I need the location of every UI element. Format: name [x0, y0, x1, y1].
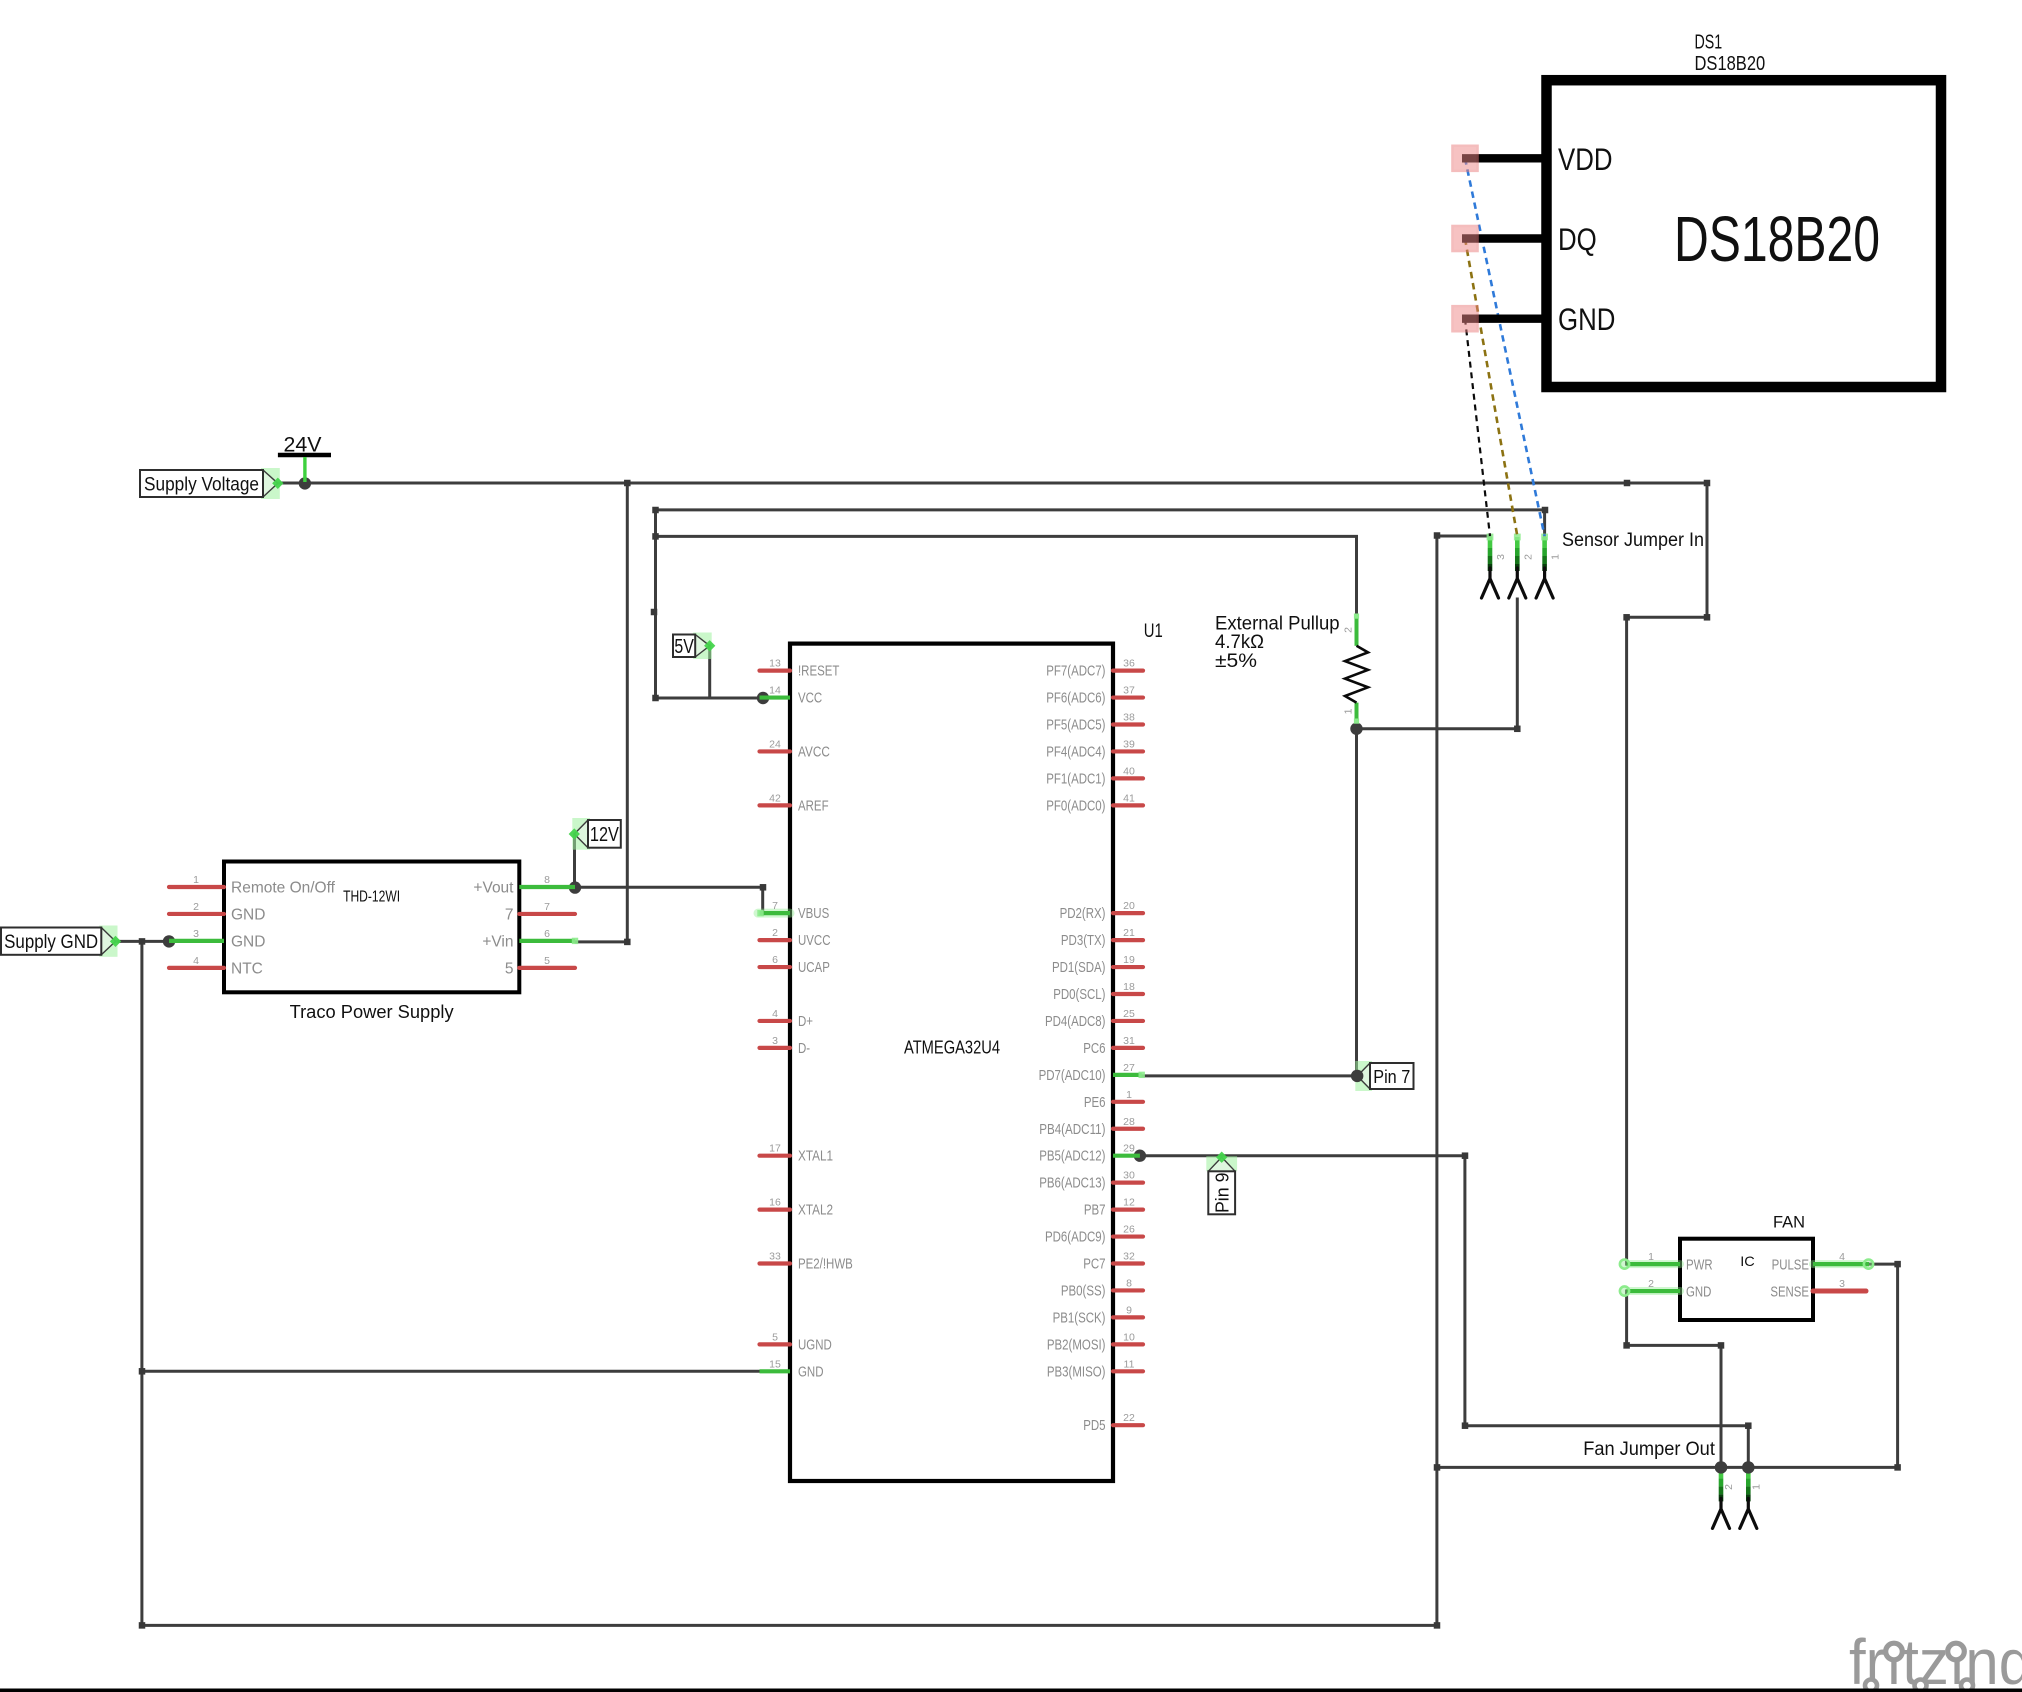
svg-text:PD3(TX): PD3(TX): [1061, 933, 1106, 949]
svg-text:Supply GND: Supply GND: [4, 931, 98, 953]
U1 pin 12 PB7: [1084, 1197, 1143, 1219]
wire pullup bottom down to Pin 7 node: [1355, 729, 1358, 1076]
svg-text:VBUS: VBUS: [798, 906, 829, 922]
svg-text:3: 3: [1495, 554, 1507, 560]
svg-text:26: 26: [1123, 1224, 1135, 1236]
wire GND bus left down: [142, 941, 1437, 1625]
svg-text:PE2/!HWB: PE2/!HWB: [798, 1257, 853, 1273]
wire joint: [1745, 1422, 1752, 1429]
connector J2 pin 2: [1713, 1467, 1736, 1528]
svg-text:PC7: PC7: [1083, 1257, 1105, 1273]
svg-text:2: 2: [1522, 554, 1534, 560]
U1 pin 30 PB6(ADC13): [1039, 1170, 1143, 1192]
node Supply GND junction: [163, 935, 175, 947]
wire FAN GND to fan jumper pin2: [1627, 1291, 1721, 1467]
wire GND bus to PULSE: [1437, 1264, 1898, 1467]
label Fan Jumper Out: [1583, 1439, 1715, 1460]
svg-text:1: 1: [1648, 1251, 1654, 1263]
U1 pin 4 D+: [760, 1008, 813, 1030]
power supply pin 8 +Vout: [473, 874, 575, 897]
wire joint: [652, 507, 659, 514]
svg-text:+Vin: +Vin: [482, 933, 513, 950]
U1 pin 9 PB1(SCK): [1053, 1304, 1143, 1326]
fan pin 3 SENSE: [1770, 1278, 1866, 1301]
wire joint: [624, 480, 631, 487]
wire 5V flag stub: [708, 646, 711, 698]
svg-text:42: 42: [769, 792, 781, 804]
U1 pin 22 PD5: [1083, 1412, 1143, 1434]
U1 pin 17 XTAL1: [760, 1143, 834, 1165]
svg-text:30: 30: [1123, 1170, 1135, 1182]
label ATMEGA32U4: [904, 1037, 1000, 1058]
svg-text:7: 7: [505, 906, 514, 923]
U1 pin 29 PB5(ADC12): [1039, 1143, 1140, 1165]
U1 pin 1 PE6: [1084, 1089, 1143, 1111]
svg-text:Fan Jumper Out: Fan Jumper Out: [1583, 1439, 1715, 1460]
svg-text:PWR: PWR: [1686, 1257, 1713, 1274]
svg-text:2: 2: [193, 901, 199, 913]
svg-text:ATMEGA32U4: ATMEGA32U4: [904, 1037, 1000, 1058]
U1 pin 31 PC6: [1083, 1035, 1143, 1057]
svg-text:12V: 12V: [590, 824, 620, 846]
svg-text:3: 3: [193, 928, 199, 940]
node fan jumper pin1 junction: [1742, 1461, 1754, 1473]
svg-text:GND: GND: [1558, 301, 1615, 337]
svg-text:Remote On/Off: Remote On/Off: [231, 880, 336, 897]
U1 pin 14 VCC: [760, 685, 823, 707]
svg-text:DS18B20: DS18B20: [1695, 53, 1766, 75]
wire joint: [1894, 1464, 1901, 1471]
wire PB5 to fan jumper pin1: [1140, 1156, 1748, 1468]
svg-text:PD1(SDA): PD1(SDA): [1052, 960, 1106, 976]
U1 pin 25 PD4(ADC8): [1045, 1008, 1143, 1030]
fan pin 2 GND: [1620, 1278, 1711, 1301]
svg-text:5: 5: [544, 955, 550, 967]
wire joint: [1894, 1261, 1901, 1268]
wire joint: [1623, 614, 1630, 621]
svg-text:U1: U1: [1144, 621, 1163, 642]
svg-text:AREF: AREF: [798, 798, 829, 814]
node fan jumper pin2 junction top: [1715, 1461, 1727, 1473]
wire joint: [652, 695, 659, 702]
svg-text:18: 18: [1123, 981, 1135, 993]
svg-text:7: 7: [544, 901, 550, 913]
svg-text:4: 4: [1839, 1251, 1845, 1263]
wire joint: [1704, 614, 1711, 621]
svg-text:THD-12WI: THD-12WI: [343, 889, 400, 906]
wire joint: [1462, 1422, 1469, 1429]
svg-text:PB0(SS): PB0(SS): [1061, 1283, 1106, 1299]
label IC: [1740, 1253, 1755, 1269]
power symbol 24V: [278, 434, 331, 483]
U1 pin 26 PD6(ADC9): [1045, 1224, 1143, 1246]
U1 pin 33 PE2/!HWB: [760, 1251, 853, 1273]
node fan jumper pin2 junction: [1715, 1461, 1727, 1473]
svg-text:D+: D+: [798, 1014, 813, 1030]
U1 pin 6 UCAP: [760, 954, 831, 976]
U1 pin 38 PF5(ADC5): [1046, 712, 1143, 734]
connector J1 pin 1: [1536, 534, 1562, 598]
svg-text:PB5(ADC12): PB5(ADC12): [1039, 1149, 1105, 1165]
svg-text:PC6: PC6: [1083, 1041, 1105, 1057]
svg-text:32: 32: [1123, 1251, 1135, 1263]
wire GND bus right vertical: [1435, 535, 1438, 1625]
svg-text:VDD: VDD: [1558, 141, 1613, 177]
svg-text:VCC: VCC: [798, 691, 823, 707]
svg-text:PD4(ADC8): PD4(ADC8): [1045, 1014, 1106, 1030]
power supply pin 5 5: [505, 955, 575, 978]
wire 24V rail right drop: [1627, 483, 1707, 1264]
svg-text:DS18B20: DS18B20: [1674, 203, 1880, 275]
svg-text:3: 3: [1839, 1278, 1845, 1290]
svg-text:PULSE: PULSE: [1772, 1257, 1809, 1274]
wire PD7 to Pin 7 node: [1142, 1074, 1358, 1077]
R1 pin 2 number: [1343, 627, 1355, 633]
svg-text:PF5(ADC5): PF5(ADC5): [1046, 718, 1105, 734]
U1 pin 16 XTAL2: [760, 1197, 834, 1219]
wire 5V net VCC to jumper pin1: [656, 510, 1545, 698]
wire joint: [760, 884, 767, 891]
wire joint: [1462, 1152, 1469, 1159]
svg-text:PF4(ADC4): PF4(ADC4): [1046, 744, 1105, 760]
svg-text:20: 20: [1123, 900, 1135, 912]
svg-text:21: 21: [1123, 927, 1135, 939]
U1 pin 15 GND: [760, 1358, 824, 1380]
sensor DS1 DS18B20 box: [1547, 80, 1942, 387]
U1 pin 8 PB0(SS): [1061, 1277, 1143, 1299]
wire joint: [1718, 1342, 1725, 1349]
svg-text:7: 7: [772, 900, 778, 912]
svg-text:XTAL1: XTAL1: [798, 1149, 833, 1165]
svg-text:41: 41: [1123, 792, 1135, 804]
node pullup bottom junction: [1350, 723, 1362, 735]
svg-text:6: 6: [544, 928, 550, 940]
svg-text:SENSE: SENSE: [1770, 1284, 1809, 1301]
fritzing watermark: [1849, 1626, 2022, 1692]
svg-text:Pin 7: Pin 7: [1373, 1067, 1410, 1087]
wire joint: [1434, 1464, 1441, 1471]
wire joint: [1542, 507, 1549, 514]
U1 pin 3 D-: [760, 1035, 811, 1057]
svg-text:4.7kΩ: 4.7kΩ: [1215, 632, 1264, 653]
svg-text:17: 17: [769, 1143, 781, 1155]
connector J1 pin 2: [1509, 534, 1535, 598]
U1 pin 36 PF7(ADC7): [1046, 658, 1143, 680]
wire joint: [139, 1622, 146, 1629]
label Traco Power Supply: [290, 1001, 455, 1022]
svg-text:28: 28: [1123, 1116, 1135, 1128]
svg-text:1: 1: [1343, 708, 1355, 714]
node Pin 7 junction top: [1351, 1070, 1363, 1082]
svg-text:GND: GND: [231, 906, 265, 923]
svg-text:3: 3: [772, 1035, 778, 1047]
wire joint: [1434, 1622, 1441, 1629]
svg-text:22: 22: [1123, 1412, 1135, 1424]
net label Supply GND: [1, 926, 121, 957]
node 5V VCC junction: [757, 692, 769, 704]
svg-text:38: 38: [1123, 712, 1135, 724]
svg-text:4: 4: [193, 955, 199, 967]
connector J1 pin 3: [1482, 534, 1508, 598]
svg-text:2: 2: [1723, 1484, 1735, 1490]
node fan jumper pin1 junction top: [1742, 1461, 1754, 1473]
U1 pin 19 PD1(SDA): [1052, 954, 1143, 976]
wire joint: [1623, 1342, 1630, 1349]
svg-text:31: 31: [1123, 1035, 1135, 1047]
svg-text:DS1: DS1: [1695, 32, 1723, 54]
svg-text:5V: 5V: [674, 636, 694, 658]
U1 pin 41 PF0(ADC0): [1046, 792, 1143, 814]
wire joint: [139, 938, 146, 945]
fan pin 4 PULSE: [1772, 1251, 1873, 1274]
svg-text:8: 8: [544, 874, 550, 886]
DS1 pin DQ: [1453, 221, 1597, 257]
wire joint: [652, 533, 659, 540]
U1 pin 10 PB2(MOSI): [1047, 1331, 1143, 1353]
svg-text:GND: GND: [231, 933, 265, 950]
U1 pin 24 AVCC: [760, 738, 831, 760]
wire pullup bottom to jumper pin2: [1357, 599, 1518, 729]
svg-text:25: 25: [1123, 1008, 1135, 1020]
svg-text:!RESET: !RESET: [798, 664, 839, 680]
wire joint: [624, 939, 631, 946]
net label Pin 9: [1206, 1152, 1237, 1215]
U1 pin 7 VBUS: [757, 900, 829, 922]
wire 12V flag stub: [573, 834, 576, 888]
fan pin 1 PWR: [1620, 1251, 1713, 1274]
ratsnest GND to J1 pin3: [1465, 319, 1490, 536]
wire joint: [1514, 726, 1521, 733]
power supply pin 1 Remote On/Off: [169, 874, 336, 897]
node Pin 7 junction: [1351, 1070, 1363, 1082]
net label Pin 7: [1352, 1061, 1414, 1091]
svg-text:6: 6: [772, 954, 778, 966]
U1 pin 37 PF6(ADC6): [1046, 685, 1143, 707]
U1 pin 2 UVCC: [760, 927, 831, 949]
svg-text:GND: GND: [798, 1364, 823, 1380]
wire 24V branch down to +Vin: [576, 483, 627, 942]
svg-text:10: 10: [1123, 1331, 1135, 1343]
svg-text:15: 15: [769, 1358, 781, 1370]
svg-text:36: 36: [1123, 658, 1135, 670]
svg-text:39: 39: [1123, 738, 1135, 750]
svg-text:Supply Voltage: Supply Voltage: [144, 474, 259, 496]
svg-text:37: 37: [1123, 685, 1135, 697]
node PB5 junction: [1134, 1150, 1146, 1162]
net label 5V: [673, 633, 715, 660]
svg-text:40: 40: [1123, 765, 1135, 777]
svg-text:AVCC: AVCC: [798, 744, 830, 760]
svg-text:PB4(ADC11): PB4(ADC11): [1039, 1122, 1105, 1138]
svg-text:14: 14: [769, 685, 781, 697]
svg-text:UVCC: UVCC: [798, 933, 831, 949]
svg-text:PF0(ADC0): PF0(ADC0): [1046, 798, 1105, 814]
svg-text:24V: 24V: [284, 434, 322, 457]
svg-text:PD0(SCL): PD0(SCL): [1053, 987, 1105, 1003]
U1 pin 39 PF4(ADC4): [1046, 738, 1143, 760]
svg-text:PB1(SCK): PB1(SCK): [1053, 1310, 1106, 1326]
svg-text:External Pullup: External Pullup: [1215, 613, 1340, 634]
U1 pin 28 PB4(ADC11): [1039, 1116, 1143, 1138]
svg-text:PE6: PE6: [1084, 1095, 1106, 1111]
connector J2 pin 1: [1740, 1467, 1763, 1528]
bottom bar: [0, 1689, 2022, 1692]
svg-text:PB2(MOSI): PB2(MOSI): [1047, 1337, 1106, 1353]
wire GND to ATMEGA pin 15: [142, 1370, 764, 1373]
svg-text:12: 12: [1123, 1197, 1135, 1209]
U1 pin 21 PD3(TX): [1061, 927, 1143, 949]
svg-text:5: 5: [505, 960, 514, 977]
svg-text:1: 1: [1750, 1484, 1762, 1490]
svg-text:1: 1: [1126, 1089, 1132, 1101]
svg-text:1: 1: [193, 874, 199, 886]
net label 12V: [569, 818, 621, 850]
svg-text:8: 8: [1126, 1277, 1132, 1289]
net label Supply Voltage: [140, 468, 283, 499]
DS1 pin GND: [1453, 301, 1616, 337]
svg-text:2: 2: [1343, 627, 1355, 633]
label Sensor Jumper In: [1562, 530, 1704, 551]
svg-text:16: 16: [769, 1197, 781, 1209]
svg-text:PB3(MISO): PB3(MISO): [1047, 1364, 1106, 1380]
label FAN: [1773, 1214, 1805, 1232]
wire joint: [1434, 532, 1441, 539]
svg-text:1: 1: [1550, 554, 1562, 560]
svg-text:GND: GND: [1686, 1284, 1711, 1301]
node 12V +Vout junction: [569, 881, 581, 893]
U1 pin 11 PB3(MISO): [1047, 1358, 1143, 1380]
svg-text:±5%: ±5%: [1215, 651, 1257, 672]
svg-text:DQ: DQ: [1558, 221, 1597, 257]
svg-text:PD5: PD5: [1083, 1418, 1105, 1434]
svg-text:PF1(ADC1): PF1(ADC1): [1046, 771, 1105, 787]
svg-text:PD7(ADC10): PD7(ADC10): [1039, 1068, 1106, 1084]
U1 pin 18 PD0(SCL): [1053, 981, 1143, 1003]
svg-text:Sensor Jumper In: Sensor Jumper In: [1562, 530, 1704, 551]
power supply pin 3 GND: [169, 928, 265, 951]
svg-text:2: 2: [772, 927, 778, 939]
fan connector box: [1680, 1239, 1813, 1320]
svg-text:Pin 9: Pin 9: [1213, 1173, 1233, 1214]
svg-text:PD2(RX): PD2(RX): [1060, 906, 1106, 922]
wire 24V supply rail top: [278, 482, 1707, 485]
svg-text:UGND: UGND: [798, 1337, 832, 1353]
svg-text:24: 24: [769, 738, 781, 750]
svg-text:NTC: NTC: [231, 960, 263, 977]
svg-text:13: 13: [769, 658, 781, 670]
wire 5V to pullup top: [656, 536, 1357, 616]
svg-text:4: 4: [772, 1008, 778, 1020]
svg-text:PB7: PB7: [1084, 1203, 1106, 1219]
svg-text:D-: D-: [798, 1041, 810, 1057]
wire GND to jumper pin3: [1437, 535, 1490, 538]
wire joint: [1704, 480, 1711, 487]
svg-text:+Vout: +Vout: [473, 880, 514, 897]
wire +Vout to VBUS: [575, 887, 763, 914]
power supply pin 7 7: [505, 901, 575, 924]
svg-text:Traco Power Supply: Traco Power Supply: [290, 1001, 455, 1022]
R1 pin 1 number: [1343, 708, 1355, 714]
DS1 pin VDD: [1453, 141, 1613, 177]
U1 pin 5 UGND: [760, 1331, 832, 1353]
power supply THD-12WI box: [224, 862, 519, 993]
wire junction nub mid rail: [1624, 480, 1631, 487]
label U1: [1144, 621, 1163, 642]
svg-text:19: 19: [1123, 954, 1135, 966]
wire Supply GND flag stub: [116, 940, 169, 943]
svg-text:29: 29: [1123, 1143, 1135, 1155]
label THD-12WI: [343, 889, 400, 906]
U1 pin 42 AREF: [760, 792, 829, 814]
ratsnest DQ to J1 pin2: [1465, 239, 1517, 537]
svg-text:33: 33: [769, 1251, 781, 1263]
resistor R1 4.7k pullup: [1345, 614, 1368, 724]
wire joint: [651, 609, 658, 616]
ratsnest VDD to J1 pin1: [1465, 158, 1545, 536]
power supply pin 6 +Vin: [482, 928, 578, 951]
svg-text:PF7(ADC7): PF7(ADC7): [1046, 664, 1105, 680]
op IC U1 ATMEGA32U4 box: [790, 644, 1113, 1481]
power supply pin 2 GND: [169, 901, 265, 924]
U1 pin 13 !RESET: [760, 658, 840, 680]
label DS1 title: [1695, 32, 1766, 76]
wire joint: [139, 1368, 146, 1375]
svg-text:5: 5: [772, 1331, 778, 1343]
label DS18B20 big: [1674, 203, 1880, 275]
svg-text:IC: IC: [1740, 1253, 1755, 1269]
svg-text:2: 2: [1648, 1278, 1654, 1290]
svg-text:27: 27: [1123, 1062, 1135, 1074]
U1 pin 40 PF1(ADC1): [1046, 765, 1143, 787]
svg-text:PB6(ADC13): PB6(ADC13): [1039, 1176, 1105, 1192]
svg-text:XTAL2: XTAL2: [798, 1203, 833, 1219]
label External Pullup value: [1215, 613, 1340, 672]
svg-text:PF6(ADC6): PF6(ADC6): [1046, 691, 1105, 707]
svg-text:FAN: FAN: [1773, 1214, 1805, 1232]
power supply pin 4 NTC: [169, 955, 263, 978]
svg-text:11: 11: [1124, 1358, 1135, 1370]
U1 pin 20 PD2(RX): [1060, 900, 1143, 922]
U1 pin 27 PD7(ADC10): [1039, 1062, 1145, 1084]
node 24V junction: [299, 477, 311, 489]
svg-text:9: 9: [1126, 1304, 1132, 1316]
svg-text:PD6(ADC9): PD6(ADC9): [1045, 1230, 1106, 1246]
svg-text:UCAP: UCAP: [798, 960, 830, 976]
U1 pin 32 PC7: [1083, 1251, 1143, 1273]
